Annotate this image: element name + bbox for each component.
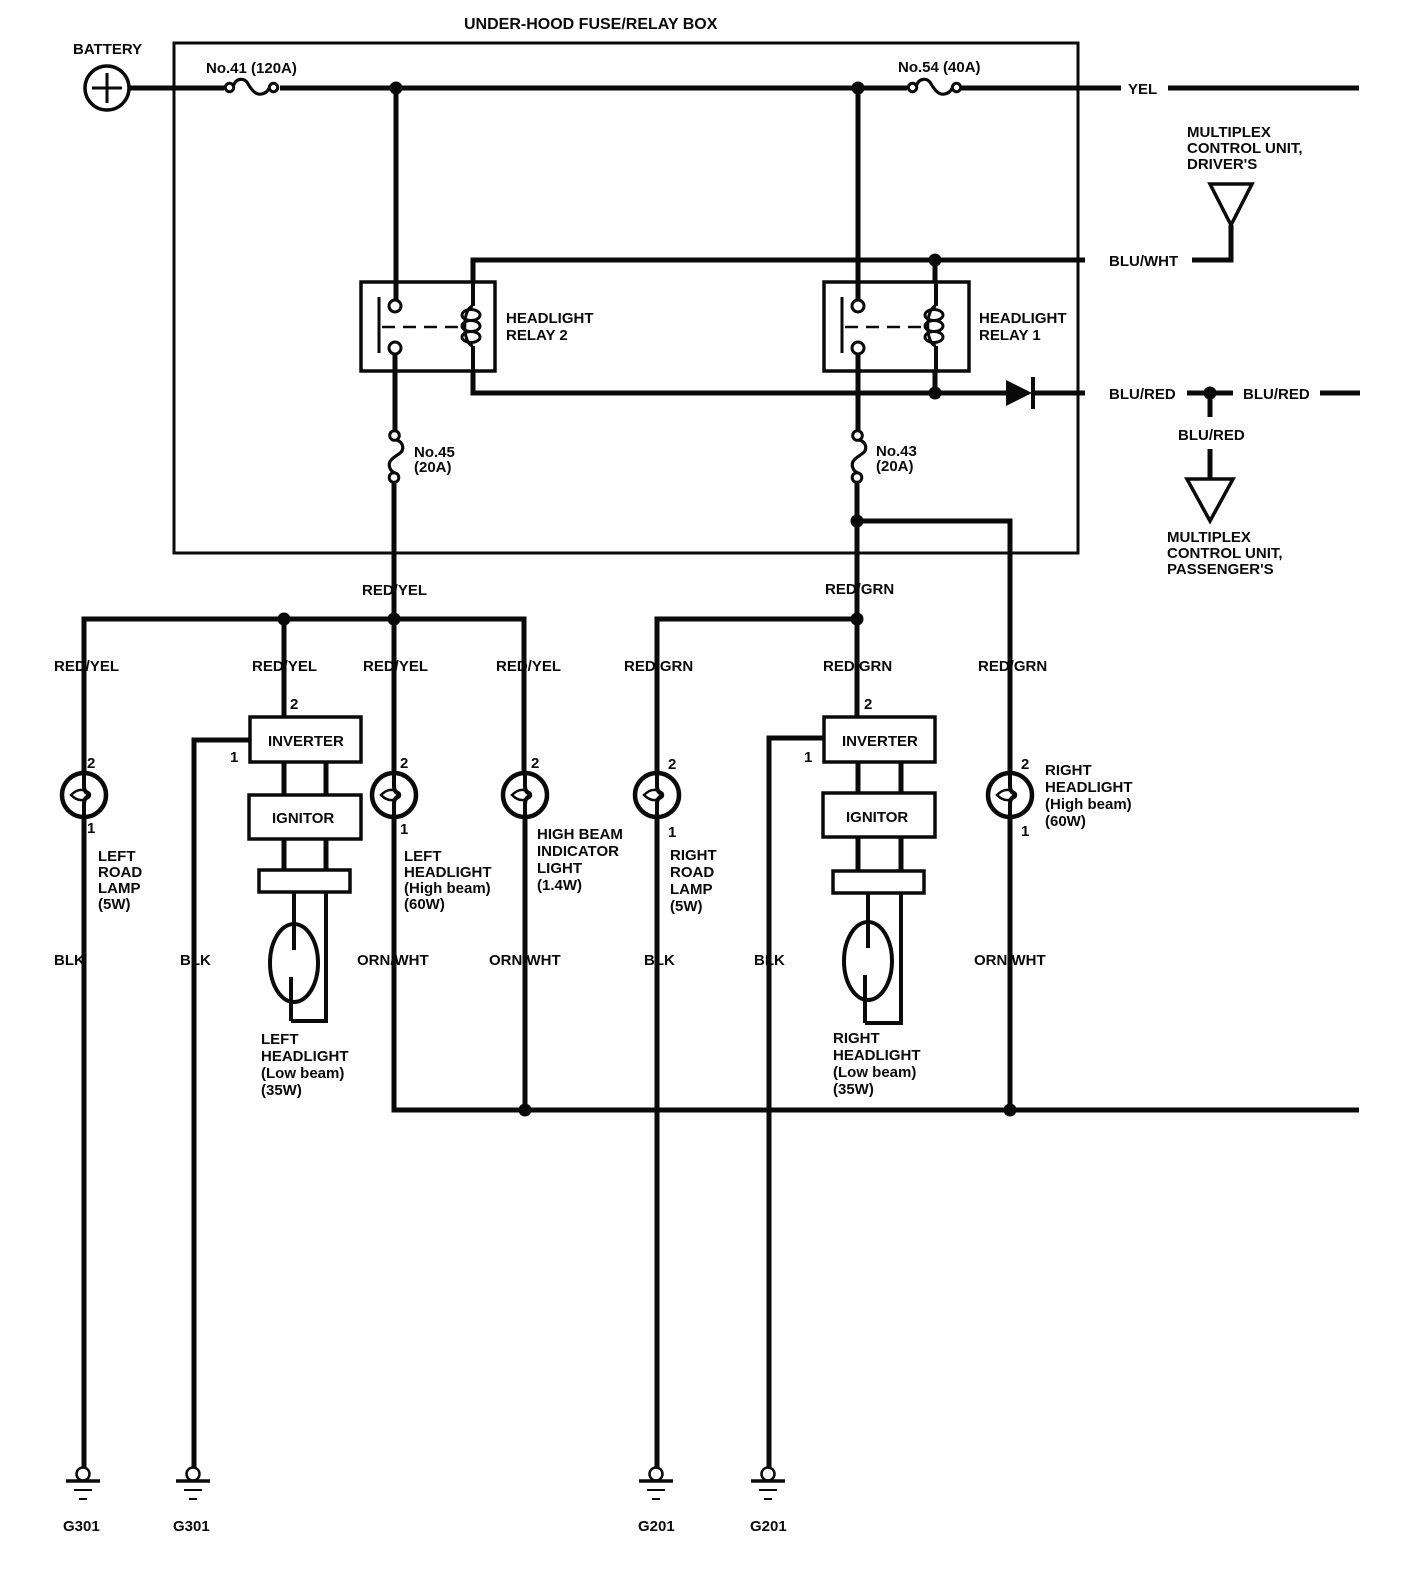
relay K2 outline (HEADLIGHT RELAY 2) xyxy=(361,282,495,371)
battery B1 xyxy=(85,66,129,110)
lamp left headlight high beam xyxy=(372,773,416,817)
wire bus to inverter 1 xyxy=(282,619,287,717)
diode D1 xyxy=(1006,380,1032,406)
svg-text:(High beam): (High beam) xyxy=(404,880,491,897)
svg-text:ORN/WHT: ORN/WHT xyxy=(974,952,1046,969)
node junction at x=858 xyxy=(852,82,865,95)
wire relay K1 coil up to BLU/WHT xyxy=(933,260,938,282)
node junction bus x=393 xyxy=(388,613,401,626)
relay K1 outline (HEADLIGHT RELAY 1) xyxy=(824,282,969,371)
svg-text:RELAY 2: RELAY 2 xyxy=(506,327,568,344)
svg-text:(20A): (20A) xyxy=(414,459,452,476)
relay K2 switch bar xyxy=(378,297,381,353)
fuse No.43 (20A) xyxy=(853,431,863,441)
svg-text:LEFT: LEFT xyxy=(261,1031,299,1048)
svg-text:HEADLIGHT: HEADLIGHT xyxy=(833,1047,921,1064)
svg-text:BLU/RED: BLU/RED xyxy=(1178,427,1245,444)
wire BLU/RED segment with junction xyxy=(1187,391,1233,396)
svg-text:(5W): (5W) xyxy=(670,898,703,915)
wire left headlight high beam to ORN/WHT bus xyxy=(394,817,1359,1110)
relay K1 pin bottom xyxy=(852,342,864,354)
wire relay K1 to fuse No.43 xyxy=(856,355,861,431)
svg-text:RIGHT: RIGHT xyxy=(670,847,717,864)
svg-text:G201: G201 xyxy=(638,1518,675,1535)
svg-text:LAMP: LAMP xyxy=(98,880,141,897)
svg-text:RED/YEL: RED/YEL xyxy=(363,658,428,675)
wire fuse54 to YEL xyxy=(961,86,1121,91)
inverter 2 box xyxy=(824,717,935,762)
lamp left road lamp xyxy=(62,773,106,817)
svg-text:1: 1 xyxy=(804,749,812,766)
svg-text:1: 1 xyxy=(230,749,238,766)
wire x=396 down to relay 2 xyxy=(394,88,399,300)
svg-text:(High beam): (High beam) xyxy=(1045,796,1132,813)
svg-text:INDICATOR: INDICATOR xyxy=(537,843,619,860)
wire BLU/RED down from junction xyxy=(1208,393,1213,417)
node junction BLU/RED x=1210 xyxy=(1204,387,1217,400)
svg-text:1: 1 xyxy=(1021,823,1029,840)
svg-text:DRIVER'S: DRIVER'S xyxy=(1187,156,1257,173)
wire relay K2 coil up to BLU/WHT xyxy=(471,262,476,282)
svg-text:2: 2 xyxy=(668,756,676,773)
svg-text:1: 1 xyxy=(400,821,408,838)
svg-text:CONTROL UNIT,: CONTROL UNIT, xyxy=(1187,140,1303,157)
svg-text:(35W): (35W) xyxy=(261,1082,302,1099)
left low beam bulb base xyxy=(259,870,350,892)
node junction bus x=857 xyxy=(851,613,864,626)
svg-text:YEL: YEL xyxy=(1128,81,1157,98)
svg-text:(60W): (60W) xyxy=(404,896,445,913)
svg-text:(Low beam): (Low beam) xyxy=(833,1064,916,1081)
wire inverter 1 to ignitor 1 xyxy=(282,762,287,795)
svg-text:2: 2 xyxy=(290,696,298,713)
svg-text:CONTROL UNIT,: CONTROL UNIT, xyxy=(1167,545,1283,562)
fuse No.45 (20A) xyxy=(390,431,400,441)
svg-text:G301: G301 xyxy=(173,1518,210,1535)
relay K1 pin top xyxy=(852,300,864,312)
svg-text:INVERTER: INVERTER xyxy=(842,733,918,750)
svg-text:RED/YEL: RED/YEL xyxy=(252,658,317,675)
svg-text:HEADLIGHT: HEADLIGHT xyxy=(261,1048,349,1065)
svg-text:RED/GRN: RED/GRN xyxy=(823,658,892,675)
relay K2 coil xyxy=(471,282,475,306)
svg-text:LEFT: LEFT xyxy=(98,848,136,865)
svg-text:HEADLIGHT: HEADLIGHT xyxy=(506,310,594,327)
svg-text:2: 2 xyxy=(87,755,95,772)
svg-text:IGNITOR: IGNITOR xyxy=(272,810,334,827)
svg-text:BLK: BLK xyxy=(644,952,675,969)
svg-text:1: 1 xyxy=(668,824,676,841)
wire right road lamp to ground xyxy=(655,817,660,1468)
svg-text:PASSENGER'S: PASSENGER'S xyxy=(1167,561,1274,578)
svg-text:(60W): (60W) xyxy=(1045,813,1086,830)
svg-text:No.54 (40A): No.54 (40A) xyxy=(898,59,981,76)
node junction bus x=1010 xyxy=(1004,1104,1017,1117)
svg-text:BLU/RED: BLU/RED xyxy=(1243,386,1310,403)
svg-text:RED/GRN: RED/GRN xyxy=(624,658,693,675)
svg-text:RED/YEL: RED/YEL xyxy=(362,582,427,599)
svg-text:LEFT: LEFT xyxy=(404,848,442,865)
svg-text:RED/YEL: RED/YEL xyxy=(54,658,119,675)
svg-text:BLK: BLK xyxy=(754,952,785,969)
svg-text:(20A): (20A) xyxy=(876,458,914,475)
svg-text:ROAD: ROAD xyxy=(670,864,714,881)
fuse No.54 (40A) xyxy=(908,83,916,91)
svg-text:ORN/WHT: ORN/WHT xyxy=(357,952,429,969)
wire fuse No.43 down to inverter 2 xyxy=(855,482,860,717)
wire inverter 2 to ignitor 2 xyxy=(856,762,861,793)
svg-text:ORN/WHT: ORN/WHT xyxy=(489,952,561,969)
inverter 1 box xyxy=(250,717,361,762)
wire BLU/RED down to passenger's multiplex xyxy=(1208,449,1213,479)
svg-text:(35W): (35W) xyxy=(833,1081,874,1098)
wire left road lamp to ground xyxy=(82,817,87,1468)
svg-text:RED/GRN: RED/GRN xyxy=(978,658,1047,675)
ignitor 2 box xyxy=(823,793,935,837)
svg-text:HEADLIGHT: HEADLIGHT xyxy=(1045,779,1133,796)
wire high beam indicator to ORN/WHT bus xyxy=(523,817,528,1110)
ground G301 b xyxy=(187,1468,200,1481)
relay K2 pin top xyxy=(389,300,401,312)
wire ignitor 1 to bulb base xyxy=(282,839,287,870)
svg-text:ROAD: ROAD xyxy=(98,864,142,881)
wire BLU/RED horizontal from relay K2 coil xyxy=(473,371,1006,393)
svg-text:RELAY 1: RELAY 1 xyxy=(979,327,1041,344)
svg-text:2: 2 xyxy=(400,755,408,772)
svg-text:(5W): (5W) xyxy=(98,896,131,913)
relay K1 dashed actuator line xyxy=(845,326,925,329)
right low beam bulb base xyxy=(833,871,924,893)
svg-text:HEADLIGHT: HEADLIGHT xyxy=(404,864,492,881)
svg-text:1: 1 xyxy=(87,820,95,837)
svg-text:RED/GRN: RED/GRN xyxy=(825,581,894,598)
svg-text:BLU/WHT: BLU/WHT xyxy=(1109,253,1178,270)
node junction BLU/RED x=935 xyxy=(929,387,942,400)
ground G301 a xyxy=(77,1468,90,1481)
under-hood fuse/relay box outline xyxy=(174,43,1078,553)
lamp high beam indicator light xyxy=(503,773,547,817)
node junction at x=396 xyxy=(390,82,403,95)
wire BLU/WHT to driver's multiplex xyxy=(1192,225,1231,260)
fuse No.41 (120A) xyxy=(225,83,233,91)
relay K2 pin bottom xyxy=(389,342,401,354)
svg-text:MULTIPLEX: MULTIPLEX xyxy=(1167,529,1251,546)
svg-text:HIGH BEAM: HIGH BEAM xyxy=(537,826,623,843)
svg-text:No.41 (120A): No.41 (120A) xyxy=(206,60,297,77)
svg-text:2: 2 xyxy=(1021,756,1029,773)
svg-text:LIGHT: LIGHT xyxy=(537,860,582,877)
svg-text:INVERTER: INVERTER xyxy=(268,733,344,750)
lamp right road lamp xyxy=(635,773,679,817)
svg-text:G301: G301 xyxy=(63,1518,100,1535)
ground G201 b xyxy=(762,1468,775,1481)
relay K1 switch bar xyxy=(841,297,844,353)
wire x=858 down to relay 1 xyxy=(856,88,861,300)
right low beam bulb xyxy=(844,922,892,1000)
wire junction to right headlight column xyxy=(857,521,1010,774)
wire inverter 2 pin1 to BLK column xyxy=(769,738,824,1468)
wire BLU/RED continues right xyxy=(1320,391,1360,396)
wire BLU/WHT horizontal xyxy=(473,260,1085,262)
left low beam bulb xyxy=(270,924,318,1002)
wire diode to BLU/RED label xyxy=(1033,391,1085,396)
svg-text:RIGHT: RIGHT xyxy=(1045,762,1092,779)
relay K1 coil xyxy=(934,282,938,306)
wire relay K1 coil down to BLU/RED xyxy=(933,371,938,393)
connector multiplex control unit passenger's xyxy=(1187,479,1233,521)
node junction x=857 y=521 xyxy=(851,515,864,528)
connector multiplex control unit driver's xyxy=(1210,184,1252,225)
node junction bus x=284 xyxy=(278,613,291,626)
wire right headlight high beam to ORN/WHT bus xyxy=(1008,817,1013,1110)
wire fuse No.45 down to left headlight high beam xyxy=(392,482,397,774)
svg-text:2: 2 xyxy=(864,696,872,713)
svg-text:BLK: BLK xyxy=(54,952,85,969)
svg-text:2: 2 xyxy=(531,755,539,772)
svg-text:BLU/RED: BLU/RED xyxy=(1109,386,1176,403)
ignitor 1 box xyxy=(249,795,361,839)
wire inverter 1 pin1 to BLK column xyxy=(194,740,250,1468)
wire main feed y=88 xyxy=(280,86,907,91)
svg-text:BATTERY: BATTERY xyxy=(73,41,142,58)
wire RED/GRN bus xyxy=(657,619,857,774)
svg-text:MULTIPLEX: MULTIPLEX xyxy=(1187,124,1271,141)
svg-text:HEADLIGHT: HEADLIGHT xyxy=(979,310,1067,327)
node junction bus x=525 xyxy=(519,1104,532,1117)
ground G201 a xyxy=(650,1468,663,1481)
svg-text:RIGHT: RIGHT xyxy=(833,1030,880,1047)
svg-text:IGNITOR: IGNITOR xyxy=(846,809,908,826)
svg-text:UNDER-HOOD FUSE/RELAY BOX: UNDER-HOOD FUSE/RELAY BOX xyxy=(464,16,718,33)
wire ignitor 2 to bulb base xyxy=(856,837,861,871)
node junction BLU/WHT x=935 xyxy=(929,254,942,267)
svg-text:LAMP: LAMP xyxy=(670,881,713,898)
wire YEL continues xyxy=(1168,86,1359,91)
wire battery to fuse No.41 xyxy=(129,86,224,91)
wire RED/YEL bus xyxy=(84,619,524,774)
wire relay K2 to fuse No.45 xyxy=(393,355,398,431)
svg-text:RED/YEL: RED/YEL xyxy=(496,658,561,675)
svg-text:(1.4W): (1.4W) xyxy=(537,877,582,894)
lamp right headlight high beam xyxy=(988,773,1032,817)
relay K2 dashed actuator line xyxy=(382,326,462,329)
svg-text:(Low beam): (Low beam) xyxy=(261,1065,344,1082)
svg-text:BLK: BLK xyxy=(180,952,211,969)
svg-text:G201: G201 xyxy=(750,1518,787,1535)
